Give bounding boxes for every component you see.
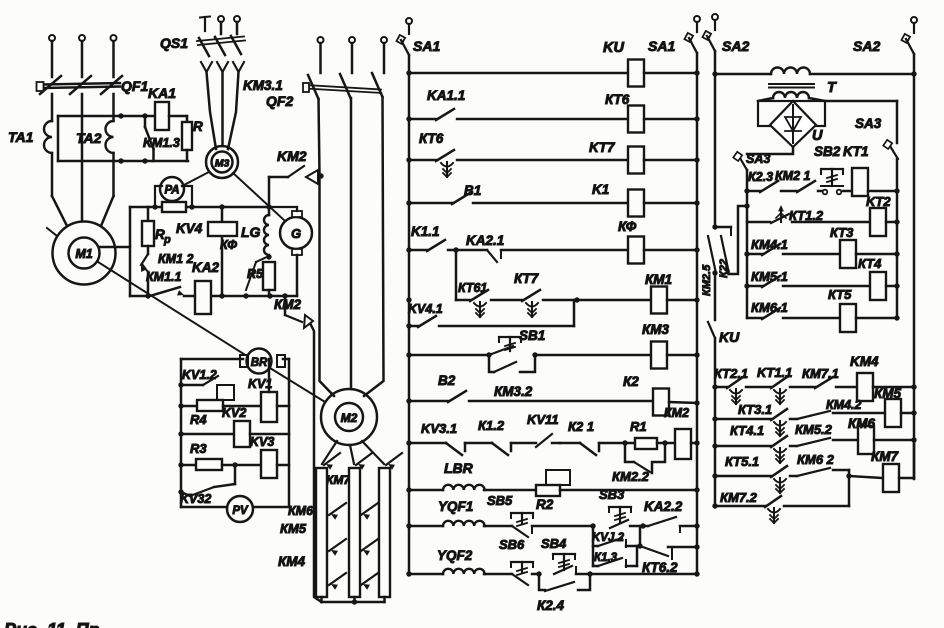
wire network left edge — [129, 207, 132, 296]
button SB4 — [553, 553, 575, 555]
rung KT7 wire — [457, 159, 628, 162]
svg-text:КМ6: КМ6 — [288, 504, 314, 518]
current transformer TA1 — [44, 121, 52, 153]
wire branch join — [639, 526, 642, 546]
svg-text:KV3.1: KV3.1 — [421, 421, 457, 436]
svg-text:КТ5: КТ5 — [828, 287, 852, 302]
timing relay coil KT2 — [870, 208, 886, 236]
svg-text:R1: R1 — [630, 419, 647, 434]
wire M1 armature lead — [100, 246, 131, 249]
generator field winding LG — [268, 207, 271, 215]
timing relay coil KT4 — [870, 272, 886, 300]
generator G — [280, 217, 312, 249]
svg-text:SA1: SA1 — [413, 38, 440, 54]
wire SA2 right rail — [913, 54, 916, 479]
timed contact KT1.1 — [746, 386, 771, 389]
rectifier U — [758, 98, 773, 101]
svg-text:K1: K1 — [592, 182, 609, 197]
svg-text:КМ7: КМ7 — [871, 449, 900, 464]
svg-text:КМ5: КМ5 — [874, 386, 902, 401]
svg-text:YQF1: YQF1 — [438, 499, 473, 514]
relay coil KV3 — [235, 464, 261, 467]
contacts KM6 row — [329, 503, 346, 515]
contact KM2.1 — [781, 190, 797, 193]
resistor R — [186, 116, 189, 122]
contact KM4.1 — [747, 253, 762, 256]
svg-text:KM3.1: KM3.1 — [243, 78, 283, 93]
svg-text:К1.2: К1.2 — [478, 418, 505, 433]
shaft M3-G — [233, 173, 284, 220]
svg-text:КФ: КФ — [220, 238, 237, 252]
svg-text:R3: R3 — [190, 441, 207, 456]
timed contact KT6 — [409, 159, 436, 162]
svg-text:R4: R4 — [190, 412, 207, 427]
svg-text:KA2: KA2 — [192, 260, 219, 275]
wire QS1 to M3 — [207, 72, 217, 149]
svg-text:КМ5: КМ5 — [280, 521, 307, 536]
svg-text:QS1: QS1 — [160, 35, 188, 51]
svg-text:КМ3.2: КМ3.2 — [494, 384, 533, 399]
contact KM5.2 — [790, 445, 797, 448]
switch SA3 left pole — [740, 158, 747, 170]
svg-text:KV3: KV3 — [250, 435, 274, 449]
svg-text:КТ6: КТ6 — [605, 92, 630, 107]
trip coil YQF1 — [443, 521, 485, 526]
svg-text:М3: М3 — [215, 158, 230, 170]
svg-text:SB5: SB5 — [487, 493, 513, 508]
wire supply phase terminals — [49, 35, 55, 41]
svg-text:KV1: KV1 — [248, 377, 272, 391]
wire G positive lead — [269, 206, 297, 208]
rung LBR wire — [409, 489, 443, 492]
circuit breaker QF1 — [40, 76, 61, 94]
timing relay coil KT3 — [840, 240, 856, 268]
svg-text:SA3: SA3 — [746, 152, 770, 166]
contactor contact KM2 upper — [268, 177, 271, 207]
wire to KM3 coil — [535, 354, 651, 357]
timed contact KT4.1 — [715, 445, 771, 448]
svg-text:SB1: SB1 — [519, 328, 545, 343]
svg-text:LG: LG — [241, 224, 261, 240]
rung K2 wire — [469, 400, 653, 403]
contact KM5.1 — [747, 285, 762, 288]
wire phase1 below QF1 — [51, 94, 54, 121]
svg-text:QF2: QF2 — [266, 93, 293, 109]
wire SA1 left rail — [408, 55, 411, 574]
svg-text:G: G — [291, 226, 301, 241]
contact KM1.3 — [144, 116, 147, 127]
svg-text:BR: BR — [251, 357, 268, 369]
contact KV1.2 — [181, 384, 203, 387]
svg-text:YQF2: YQF2 — [437, 548, 473, 563]
wire branch K1.1 down — [455, 250, 458, 300]
contactor coil KM1 — [651, 287, 667, 314]
contact K1.2 — [465, 442, 492, 445]
svg-text:KU: KU — [719, 329, 740, 345]
svg-text:КТ3.1: КТ3.1 — [738, 402, 772, 417]
svg-text:p: p — [163, 234, 171, 246]
wire KV4.1 to KM1 rung — [439, 325, 574, 328]
current transformer TA2 — [106, 121, 114, 153]
stop button SB1 — [499, 336, 521, 338]
svg-text:К2.4: К2.4 — [537, 598, 565, 613]
contacts KM5 row — [329, 539, 346, 551]
svg-text:КМ4: КМ4 — [278, 554, 306, 569]
svg-text:КМ7: КМ7 — [326, 473, 351, 487]
wire excitation top bus — [130, 206, 269, 209]
wire KV box frame — [181, 358, 243, 361]
svg-text:K1.1: K1.1 — [411, 224, 440, 239]
relay coil KV1 — [223, 405, 261, 408]
wire phase2 below QF1 — [81, 94, 84, 220]
contactor coil KM7 — [883, 464, 899, 492]
trip coil YQF2 — [443, 569, 485, 574]
svg-text:KA2.1: KA2.1 — [466, 233, 504, 248]
wire rectifier positive — [825, 100, 897, 103]
transformer T primary — [715, 73, 771, 76]
rung YQF2 wire — [409, 573, 443, 576]
svg-text:КМ2.2: КМ2.2 — [612, 469, 650, 484]
contactor contact KM2 lower — [284, 296, 287, 315]
svg-text:SB6: SB6 — [499, 537, 525, 552]
svg-text:QF1: QF1 — [121, 78, 148, 94]
svg-text:SA1: SA1 — [648, 38, 675, 54]
wire DC left bus — [746, 170, 749, 318]
svg-text:PV: PV — [232, 505, 249, 517]
wire rectifier negative — [747, 147, 793, 154]
svg-text:SB3: SB3 — [599, 487, 625, 502]
relay coil KF — [628, 237, 644, 264]
contact KM4.2 — [790, 418, 797, 421]
button SB3 — [609, 506, 631, 508]
svg-text:КТ61: КТ61 — [458, 281, 487, 295]
switch SA2 right pole — [911, 17, 917, 23]
svg-text:КМ2: КМ2 — [664, 406, 689, 420]
contact KV3.2 — [234, 465, 237, 484]
svg-text:R2: R2 — [536, 497, 554, 512]
rung K1 wire — [473, 202, 628, 205]
motor M2 — [321, 389, 377, 445]
relay coil KA2 — [195, 281, 211, 314]
svg-text:KT7: KT7 — [589, 140, 616, 155]
contact KA1.1 — [409, 118, 436, 121]
wire M2 supply terminals — [318, 37, 324, 43]
timed contact KT3.1 — [715, 418, 771, 421]
contact KA2.2 — [643, 525, 648, 528]
voltmeter PV — [227, 496, 253, 522]
svg-text:PA: PA — [164, 185, 179, 197]
wire SA2 left rail — [714, 51, 717, 227]
timed contact KT2.1 — [715, 386, 727, 389]
contact across R5 — [256, 256, 269, 262]
motor M1 — [53, 222, 116, 285]
wire rail to lower block — [714, 273, 717, 320]
relay coil K1 — [628, 190, 644, 217]
wire phase drops to QF1 — [51, 41, 54, 77]
svg-text:КТ5.1: КТ5.1 — [725, 454, 759, 469]
svg-text:KA1: KA1 — [148, 85, 176, 101]
svg-text:LBR: LBR — [444, 460, 474, 476]
button SB2 — [821, 168, 843, 170]
contact B2 — [409, 400, 448, 403]
svg-text:KM1.3: KM1.3 — [143, 136, 180, 150]
transformer T secondary — [773, 92, 809, 98]
resistor R1 — [625, 442, 635, 445]
relay coil KV4 — [221, 207, 224, 296]
rung YQF1 wire — [409, 525, 443, 528]
contact KV3.1 — [409, 442, 446, 445]
svg-text:SA3: SA3 — [855, 116, 882, 131]
contact KV3.2 branch — [593, 545, 598, 548]
contact KM6.1 — [747, 317, 762, 320]
svg-text:КМ2: КМ2 — [274, 297, 302, 312]
svg-text:КМ2 1: КМ2 1 — [775, 169, 811, 183]
svg-text:КМ4.1: КМ4.1 — [751, 237, 788, 252]
svg-text:М2: М2 — [341, 411, 358, 425]
svg-text:SB4: SB4 — [541, 536, 567, 551]
contact K2.2 — [721, 236, 729, 271]
transformer T core — [769, 83, 814, 85]
contactor coil KM5 — [885, 399, 901, 427]
timing relay coil KT6 — [628, 106, 644, 133]
svg-text:КФ: КФ — [618, 219, 637, 234]
svg-text:KU: KU — [603, 40, 624, 56]
timed contact KT6.2 — [640, 546, 668, 556]
circuit breaker QF2 — [308, 75, 319, 99]
svg-text:U: U — [812, 128, 823, 144]
svg-text:КМ5.2: КМ5.2 — [795, 422, 833, 437]
svg-text:КМ7.2: КМ7.2 — [720, 490, 758, 505]
svg-text:КТ3: КТ3 — [830, 225, 854, 240]
svg-text:КМ1: КМ1 — [645, 272, 672, 287]
wire QF2 to M2 — [319, 99, 335, 396]
switch SA1 right pole — [694, 16, 700, 22]
svg-text:KV4: KV4 — [176, 221, 203, 236]
wire TA secondary loop — [58, 115, 155, 118]
rung KT6 wire — [457, 118, 628, 121]
contact KM7.1 — [790, 386, 815, 389]
contact KM2.5 — [712, 224, 717, 229]
svg-text:R: R — [193, 119, 203, 134]
svg-text:SA2: SA2 — [722, 38, 749, 54]
svg-text:КТ4: КТ4 — [858, 256, 882, 271]
starting resistor bank column 3 — [379, 468, 390, 597]
shaft M1-BR-M2 — [98, 262, 247, 356]
svg-text:B1: B1 — [464, 183, 481, 198]
svg-text:KV4.1: KV4.1 — [408, 302, 443, 316]
wire SA1 right rail — [696, 53, 699, 574]
contact KM2.2 bypass — [625, 443, 634, 462]
svg-text:KT1.1: KT1.1 — [757, 365, 792, 380]
svg-text:KT2: KT2 — [866, 194, 891, 209]
svg-text:Рис. 11. Пр: Рис. 11. Пр — [4, 620, 100, 628]
contact K2.1 — [560, 442, 580, 445]
timing relay coil KT1 — [843, 190, 852, 193]
svg-text:KV11: KV11 — [527, 412, 559, 427]
wire phase3 below QF1 — [112, 94, 115, 121]
svg-text:КМ1 2: КМ1 2 — [158, 252, 194, 266]
disconnector QS1 — [204, 17, 206, 31]
svg-text:КМ3: КМ3 — [642, 322, 670, 337]
brake coil LBR — [443, 485, 485, 490]
contact KM7.2 rung — [715, 505, 765, 508]
contact KV4.1 — [409, 325, 418, 328]
contact KV11 — [511, 442, 536, 445]
svg-text:КМ6.1: КМ6.1 — [751, 300, 788, 315]
svg-text:КМ5.1: КМ5.1 — [751, 269, 788, 284]
ammeter PA — [160, 177, 184, 201]
contactor coil KM4 — [857, 373, 873, 401]
svg-text:КТ2.1: КТ2.1 — [714, 366, 748, 381]
svg-text:КМ1.1: КМ1.1 — [146, 270, 182, 284]
svg-text:КМ6: КМ6 — [848, 416, 876, 431]
svg-text:KV2: KV2 — [222, 406, 246, 420]
button SB6 — [511, 561, 533, 563]
switch SA3 right pole — [890, 146, 898, 159]
switch SA1 left pole — [406, 18, 412, 24]
timing relay coil KT5 — [840, 304, 856, 332]
contact KA2.1 — [456, 249, 487, 252]
svg-text:К1.3: К1.3 — [594, 552, 618, 564]
svg-text:T: T — [827, 80, 837, 96]
contactor coil KM2 — [665, 442, 675, 445]
svg-text:КТ6: КТ6 — [419, 131, 444, 146]
relay coil KA1 — [155, 102, 169, 130]
resistor R2 with tap — [546, 470, 570, 485]
rung KU wire — [409, 72, 628, 75]
contact K2.3 — [747, 190, 760, 193]
wire G negative lead — [296, 255, 299, 296]
relay coil KV2 — [181, 433, 234, 436]
resistor R5 — [263, 262, 275, 290]
button SB5 — [511, 512, 533, 514]
wire KV box branch — [592, 526, 595, 566]
timed contact KT5.1 — [715, 475, 771, 478]
resistor R4 — [181, 405, 197, 408]
contact KM6.2 — [790, 475, 797, 478]
contact K1.3 branch — [593, 565, 598, 568]
wire M2 to resistor bank — [322, 441, 337, 464]
svg-text:К2: К2 — [623, 374, 639, 389]
svg-text:КТ4.1: КТ4.1 — [730, 423, 764, 438]
svg-text:B2: B2 — [438, 373, 456, 388]
svg-text:К2.3: К2.3 — [748, 170, 773, 184]
timed contact KT1.2 rung — [747, 221, 770, 224]
contactor coil KM6 — [858, 426, 874, 454]
svg-text:КМ6 2: КМ6 2 — [797, 452, 835, 467]
motor M3 — [206, 146, 238, 178]
svg-text:М1: М1 — [75, 247, 92, 261]
svg-text:KV32: KV32 — [180, 492, 211, 506]
svg-text:КМ4.2: КМ4.2 — [826, 398, 862, 412]
svg-text:КМ2.5: КМ2.5 — [701, 264, 713, 296]
wire network bottom bus — [130, 295, 148, 298]
svg-text:TA2: TA2 — [76, 130, 102, 146]
svg-text:KM4: KM4 — [850, 354, 879, 369]
timed contact KT7 — [491, 299, 522, 302]
contact KM1.2 — [147, 246, 150, 254]
shunt resistor — [162, 202, 186, 212]
contact KU — [708, 322, 715, 338]
tachogenerator BR — [240, 355, 248, 367]
svg-text:KT1: KT1 — [843, 144, 869, 159]
resistor R3 — [181, 464, 196, 467]
contact KM3.2 bypass — [489, 355, 494, 372]
svg-text:SB2: SB2 — [814, 144, 841, 159]
starting resistor bank column 2 — [349, 468, 360, 597]
contactor coil KM3 — [651, 342, 667, 369]
wire phase taper into M1 — [52, 196, 67, 226]
svg-text:КМ7.1: КМ7.1 — [802, 366, 839, 381]
svg-text:К2 1: К2 1 — [568, 419, 594, 434]
wire KM2 to resistor bank — [311, 325, 322, 602]
svg-text:КТ7: КТ7 — [514, 271, 540, 286]
contact K2.4 bypass — [539, 574, 545, 590]
shaft M3-PA link — [182, 172, 209, 186]
resistor Rp — [147, 207, 150, 221]
relay coil K2 — [653, 389, 669, 416]
contact K1.1 — [409, 249, 427, 252]
timed contact KT61 — [456, 299, 470, 302]
contactor contacts KM7 shorting row — [324, 453, 340, 465]
svg-text:KM2: KM2 — [277, 148, 307, 164]
svg-text:TA1: TA1 — [8, 129, 34, 145]
svg-text:KA1.1: KA1.1 — [427, 88, 465, 103]
svg-text:KA2.2: KA2.2 — [644, 499, 683, 514]
svg-text:KVЈ.2: KVЈ.2 — [592, 532, 625, 544]
svg-text:SA2: SA2 — [853, 38, 880, 54]
starting resistor bank column 1 — [316, 468, 327, 597]
timing relay coil KT7 — [628, 147, 644, 174]
contacts KM4 row — [329, 573, 346, 585]
relay coil KU — [628, 60, 644, 87]
svg-text:KV1.2: KV1.2 — [182, 368, 217, 382]
rung KM1 wire — [577, 299, 651, 302]
contact B1 — [409, 202, 452, 205]
rung SB1 wire — [409, 354, 489, 357]
switch SA2 left pole — [712, 14, 718, 20]
wire resistor bank bottom bus — [320, 597, 323, 602]
